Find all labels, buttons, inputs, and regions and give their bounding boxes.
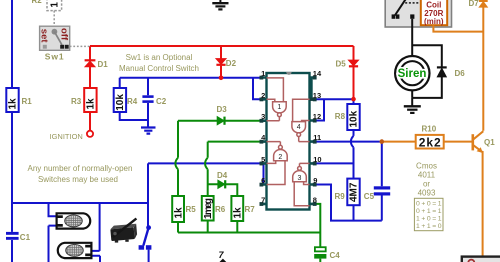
svg-text:1k: 1k — [233, 207, 244, 219]
svg-text:C5: C5 — [364, 192, 375, 201]
svg-text:14: 14 — [313, 69, 322, 78]
svg-text:1: 1 — [50, 2, 61, 8]
svg-text:1k: 1k — [8, 98, 19, 110]
svg-text:4: 4 — [297, 124, 301, 131]
svg-text:IGNITION: IGNITION — [50, 132, 83, 141]
svg-text:off: off — [58, 28, 69, 41]
wire pin4 line — [208, 141, 261, 143]
annotation notes — [28, 53, 437, 198]
svg-text:13: 13 — [313, 91, 321, 100]
wire R6 vertical with hop over zone line — [207, 142, 209, 233]
diode D1 (cathode up) — [85, 60, 96, 67]
wire pin14 to pin13 tie — [311, 78, 313, 100]
svg-text:1k: 1k — [86, 98, 97, 110]
microswitch (photo style) — [110, 218, 137, 243]
resistor R2 (dashed, cut at top) — [47, 0, 62, 26]
wire knife switch feed — [147, 203, 150, 262]
op-amp/IC U1 CMOS 4011 outline — [267, 72, 310, 210]
wire pin3/D3 line — [178, 120, 261, 122]
switch (knife, blue) — [139, 225, 152, 249]
gate 3 (output up) — [293, 171, 307, 182]
svg-text:12: 12 — [313, 112, 321, 121]
svg-text:R9: R9 — [335, 192, 346, 201]
svg-text:3: 3 — [261, 112, 265, 121]
svg-text:1k: 1k — [173, 207, 184, 219]
wire hops (green verticals over blue zone line) — [175, 158, 207, 169]
svg-text:Q1: Q1 — [484, 138, 495, 147]
node IGNITION terminal — [87, 131, 93, 137]
svg-text:8: 8 — [313, 195, 317, 204]
svg-text:3: 3 — [298, 175, 302, 182]
wire base line to R10 and Q1 — [382, 141, 472, 143]
wire pin9 to bottom rail — [316, 185, 382, 221]
wire pin5/6 zone line — [148, 163, 264, 184]
svg-text:4011: 4011 — [418, 171, 436, 180]
relay armature — [395, 0, 406, 16]
svg-text:set: set — [39, 29, 50, 44]
resistor R7 — [231, 196, 243, 221]
svg-text:(min): (min) — [424, 17, 444, 26]
svg-text:11: 11 — [313, 133, 321, 142]
svg-text:R8: R8 — [335, 112, 346, 121]
svg-text:Manual Control Switch: Manual Control Switch — [119, 64, 199, 73]
wire R8-R9 vertical with hop over pin11 line — [353, 99, 355, 220]
svg-text:D1: D1 — [98, 60, 109, 69]
pressure mat switch (lower) — [58, 243, 92, 258]
wire R4 branch — [120, 78, 148, 120]
svg-text:2: 2 — [278, 154, 282, 161]
wire Q1 emitter rail down — [482, 151, 484, 257]
resistor R1 — [6, 88, 18, 112]
junction dot orange (node base) — [380, 139, 385, 144]
svg-text:1 + 1 = 0: 1 + 1 = 0 — [416, 223, 442, 230]
wire D2 branch — [220, 46, 222, 78]
node annotation 7 with arrow (bottom, cut) — [219, 250, 227, 262]
svg-text:Any number of normally-open: Any number of normally-open — [28, 164, 133, 173]
wire pin12 riser — [316, 99, 325, 120]
transistor Q1 (NPN) — [473, 131, 484, 152]
svg-text:Sw1: Sw1 — [45, 51, 65, 61]
svg-text:10k: 10k — [349, 110, 360, 127]
svg-text:D7: D7 — [469, 0, 480, 8]
svg-text:D5: D5 — [336, 60, 347, 69]
NAND gates inside IC (rose) — [267, 78, 310, 206]
pin number labels — [261, 69, 266, 204]
relay RLA (top right, cut off) — [385, 0, 451, 27]
wire relay common to siren and D6 — [412, 19, 442, 98]
notch — [286, 72, 291, 75]
wire hop of R8-R9 vertical over pin11 line — [351, 136, 354, 147]
truth table — [414, 198, 443, 230]
svg-text:R5: R5 — [186, 205, 197, 214]
resistor R10 — [416, 135, 444, 150]
wire coil to right rail — [433, 25, 483, 31]
relay coil box — [421, 0, 447, 25]
svg-text:C2: C2 — [156, 97, 167, 106]
svg-text:10: 10 — [313, 155, 321, 164]
svg-text:D4: D4 — [217, 171, 228, 180]
svg-text:0 + 0 = 1: 0 + 0 = 1 — [416, 201, 442, 208]
svg-text:Siren: Siren — [398, 68, 427, 80]
wire C2 branch — [147, 78, 149, 127]
resistor R4 — [114, 88, 126, 112]
wire R5 vertical with hop over zone line — [177, 121, 179, 233]
wire D4 branch — [208, 184, 238, 232]
svg-text:5: 5 — [261, 155, 265, 164]
resistor R5 — [172, 196, 184, 222]
wire pin11 line — [316, 141, 382, 143]
svg-text:R10: R10 — [422, 125, 437, 134]
wire left +rail vertical — [11, 0, 13, 262]
wire trigger line y=77.7 — [120, 78, 261, 100]
svg-text:10k: 10k — [115, 94, 126, 111]
wire mat branch right — [92, 203, 101, 262]
ground (top center, cut) — [212, 0, 228, 9]
svg-text:R2: R2 — [32, 0, 43, 5]
ground (blue) under C2 — [141, 128, 156, 134]
svg-text:R1: R1 — [22, 97, 33, 106]
resistor R3 — [84, 88, 96, 112]
wire D5 branch — [353, 46, 355, 99]
svg-text:6: 6 — [261, 176, 265, 185]
diode D4 (points right) — [218, 180, 225, 188]
junction dots red — [219, 76, 356, 102]
wire D1/R3 branch — [89, 46, 91, 131]
svg-text:1meg: 1meg — [203, 198, 214, 219]
gate 1 (output down) — [273, 102, 287, 113]
IC pin end squares — [260, 76, 317, 206]
svg-text:0 + 1 = 1: 0 + 1 = 1 — [416, 208, 442, 215]
wire green bottom bus — [178, 232, 320, 234]
capacitor C1 — [6, 232, 19, 240]
svg-text:9: 9 — [313, 176, 317, 185]
switch Sw1 — [39, 26, 90, 50]
capacitor C4 (electrolytic) — [314, 247, 326, 258]
svg-text:1 + 0 = 1: 1 + 0 = 1 — [416, 216, 442, 223]
svg-text:D6: D6 — [455, 69, 466, 78]
svg-text:2k2: 2k2 — [419, 136, 441, 150]
ground (under siren) — [404, 98, 421, 113]
capacitor C5 — [374, 186, 390, 195]
svg-text:1: 1 — [261, 69, 265, 78]
svg-text:R3: R3 — [71, 97, 82, 106]
siren SN1 — [395, 56, 429, 90]
wire pin13 rail — [316, 98, 354, 100]
switch box (bottom right, cut) — [462, 257, 500, 262]
wire switched +12V rail y=46 — [90, 45, 354, 47]
svg-text:C1: C1 — [20, 233, 31, 242]
relay contact terminals — [392, 14, 396, 18]
resistor R8 — [347, 104, 359, 130]
svg-text:R4: R4 — [127, 97, 138, 106]
diode D3 (points right) — [217, 117, 224, 125]
wire C5 branch — [381, 142, 383, 221]
gate 2 (output up) — [274, 150, 288, 161]
capacitor C2 — [142, 95, 153, 103]
diode D7 (cathode up, cut at top) — [479, 1, 488, 7]
svg-text:D3: D3 — [217, 105, 228, 114]
svg-text:Switches may be used: Switches may be used — [38, 175, 118, 184]
pressure mat switch (upper) — [57, 213, 91, 228]
gate 4 (output down) — [292, 122, 306, 133]
wire pin8 to C4 — [316, 204, 321, 262]
svg-text:C4: C4 — [330, 251, 341, 260]
diode D6 (cathode up) — [437, 67, 447, 77]
svg-text:D2: D2 — [226, 59, 237, 68]
diode D2 (points down) — [216, 59, 226, 65]
svg-text:R6: R6 — [215, 205, 226, 214]
svg-text:4M7: 4M7 — [349, 182, 360, 202]
svg-text:Sw1 is an Optional: Sw1 is an Optional — [126, 53, 193, 62]
svg-text:R7: R7 — [245, 205, 256, 214]
svg-text:Cmos: Cmos — [416, 162, 437, 171]
wire mat branch left — [49, 203, 58, 262]
svg-text:1: 1 — [277, 104, 281, 111]
svg-text:7: 7 — [261, 195, 265, 204]
resistor R6 — [202, 196, 214, 221]
resistor R9 — [347, 179, 359, 206]
wire right orange rail / D7 branch — [482, 7, 484, 131]
wire zone line down to switches — [12, 163, 148, 203]
diode D5 (points down) — [349, 60, 359, 66]
IC pin stubs — [260, 78, 316, 204]
svg-text:2: 2 — [261, 91, 265, 100]
wire pin10 line — [316, 162, 354, 164]
svg-text:or: or — [423, 180, 430, 189]
svg-text:4093: 4093 — [418, 189, 436, 198]
